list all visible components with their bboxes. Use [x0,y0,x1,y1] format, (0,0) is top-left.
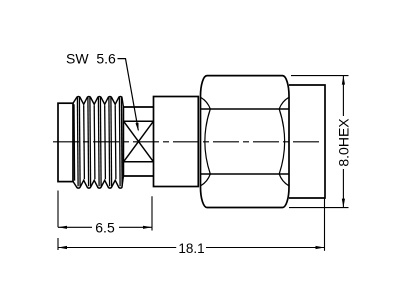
hex body outline [201,76,290,208]
hex middle facet arcs [205,109,285,174]
dim 18.1 arrows [58,246,67,249]
hex top facet end arcs [201,98,289,110]
hex bottom facet end arcs [201,174,289,186]
thread bottom profile [73,176,123,188]
dim 6.5 extension lines [58,191,152,251]
dim 8.0HEX arrows [342,76,345,85]
male cylinder [289,85,325,198]
dim 8.0HEX line [342,76,344,208]
dim 8.0HEX extension lines [289,76,349,208]
svg-text:SW 5.6: SW 5.6 [66,51,116,67]
centerline [53,141,321,143]
svg-text:18.1: 18.1 [178,241,204,256]
female flange rect [58,103,73,181]
dim 18.1 extension right [324,198,326,251]
dim 6.5 arrows [58,226,67,229]
thread flank lines [74,98,122,187]
svg-text:6.5: 6.5 [95,219,115,235]
dim 18.1 line [58,247,325,249]
mid body rect [154,97,199,187]
knurl X diagonals [124,122,153,161]
knurl inner lines [123,121,153,162]
thread top profile [73,97,123,108]
knurl section outline [123,107,153,176]
hex facet division lines [201,109,290,174]
dim 6.5 line [58,226,152,228]
svg-text:8.0HEX: 8.0HEX [335,118,351,167]
